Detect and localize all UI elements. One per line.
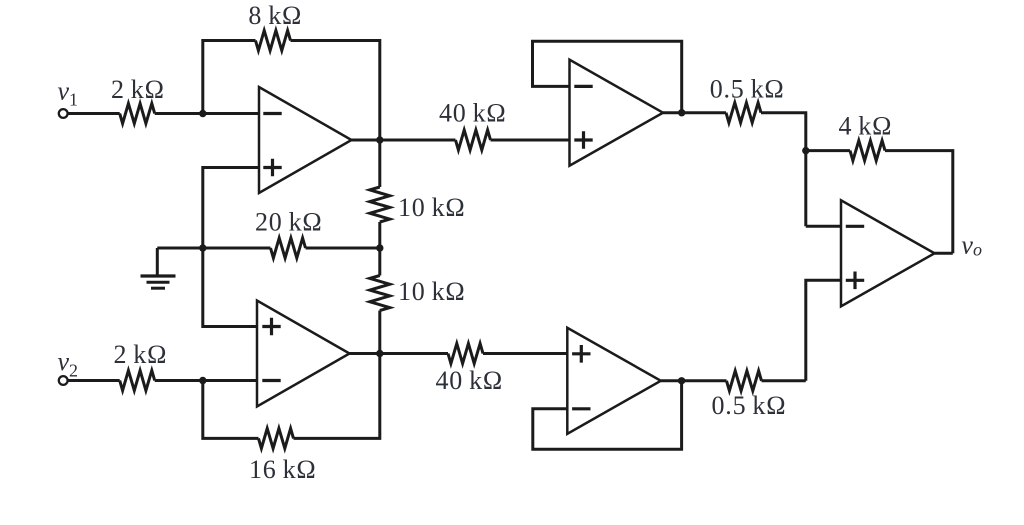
- junction node E: [199, 377, 206, 384]
- wire 40k to U4 + input: [483, 352, 567, 355]
- U5 non-inverting input +: [846, 272, 864, 290]
- U2 inverting input -: [262, 379, 280, 382]
- wire U5 - input stub: [806, 225, 841, 228]
- wire between 10k resistors: [378, 222, 381, 276]
- resistor 2k (top input): [120, 104, 155, 124]
- wire node B down to 10k: [378, 140, 381, 187]
- U4 inverting input -: [572, 407, 590, 410]
- resistor 40k upper: [456, 130, 491, 150]
- wire v2 to R 2k: [68, 379, 120, 382]
- junction node F: [802, 147, 809, 154]
- wire U4 output to 0.5k: [661, 379, 727, 382]
- resistor 8k feedback: [256, 31, 291, 51]
- wire 0.5k down to U5 - input: [761, 113, 806, 227]
- U4 non-inverting input +: [572, 345, 590, 363]
- wire 10k lower to node D: [378, 311, 381, 354]
- resistor 2k (bottom input): [120, 371, 155, 391]
- resistor 0.5k lower: [727, 371, 762, 391]
- wire R 2k to U2 inverting input, node E: [155, 379, 257, 382]
- op-amp U1: [259, 87, 352, 193]
- junction U4 output: [678, 377, 685, 384]
- U4 unity feedback loop: [533, 381, 682, 449]
- svg-text:40 kΩ: 40 kΩ: [439, 99, 507, 128]
- svg-text:0.5 kΩ: 0.5 kΩ: [712, 391, 787, 420]
- op-amp U2: [257, 301, 350, 407]
- ground stub: [156, 248, 159, 275]
- wire U5 + input down to lower 0.5k row: [806, 280, 841, 381]
- U5 inverting input -: [846, 225, 864, 228]
- wire ground to 20k: [157, 247, 270, 250]
- op-amp U4 buffer: [567, 328, 661, 434]
- svg-text:10 kΩ: 10 kΩ: [398, 193, 466, 222]
- svg-text:40 kΩ: 40 kΩ: [436, 366, 504, 395]
- svg-text:4 kΩ: 4 kΩ: [839, 112, 893, 141]
- resistor 40k lower: [448, 344, 483, 364]
- ground symbol: [141, 276, 176, 288]
- resistor 10k lower: [370, 276, 390, 311]
- resistor 4k feedback: [850, 141, 885, 161]
- junction node C between 10k resistors: [376, 244, 383, 251]
- svg-text:16 kΩ: 16 kΩ: [249, 455, 317, 484]
- wire U5 output vo: [935, 252, 953, 255]
- U3 non-inverting input +: [574, 131, 592, 149]
- junction U3 output: [678, 109, 685, 116]
- svg-text:20 kΩ: 20 kΩ: [255, 207, 323, 236]
- svg-text:0.5 kΩ: 0.5 kΩ: [710, 75, 785, 104]
- U2 non-inverting input +: [262, 318, 280, 336]
- svg-text:10 kΩ: 10 kΩ: [398, 277, 466, 306]
- resistor 10k upper: [370, 187, 390, 222]
- junction node D: [376, 350, 383, 357]
- U1 inverting input -: [263, 112, 281, 115]
- U3 unity feedback loop: [533, 41, 682, 113]
- wire 8k to U1 output node B: [291, 41, 380, 141]
- U1 non-inverting input +: [263, 159, 281, 177]
- wire U3 output to 0.5k: [663, 111, 726, 114]
- junction node B: [376, 136, 383, 143]
- wire node E down to 16k: [203, 381, 259, 439]
- wire U1 + input down to 20k row: [203, 168, 259, 249]
- wire 20k to node C: [306, 247, 380, 250]
- svg-text:2 kΩ: 2 kΩ: [111, 75, 165, 104]
- wire 0.5k to U5 + column: [762, 379, 806, 382]
- svg-text:2 kΩ: 2 kΩ: [114, 340, 168, 369]
- op-amp U3 buffer: [570, 60, 664, 166]
- wire node F to 4k: [806, 149, 850, 152]
- resistor 20k: [271, 238, 306, 258]
- wire node A up to 8k: [203, 41, 256, 114]
- svg-text:8 kΩ: 8 kΩ: [248, 1, 302, 30]
- wire 16k to U2 output node D: [294, 354, 380, 439]
- wire 40k to U3 + input: [491, 139, 570, 142]
- wire R 2k to U1 inverting input, node A: [155, 112, 259, 115]
- terminal v1: [59, 109, 68, 118]
- resistor 16k feedback: [259, 428, 294, 448]
- wire v1 to R 2k: [68, 112, 120, 115]
- resistor 0.5k upper: [726, 103, 761, 123]
- terminal v2: [59, 376, 68, 385]
- U3 inverting input -: [574, 85, 592, 88]
- wire 4k to U5 output: [885, 151, 953, 254]
- wire U1 output to 40k: [352, 139, 456, 142]
- junction node A: [199, 110, 206, 117]
- wire U2 output to 40k: [350, 352, 449, 355]
- junction 20k row / U1+ / U2+: [199, 244, 206, 251]
- wire U2 + input up to 20k row: [203, 248, 257, 327]
- op-amp U5 output stage: [841, 200, 935, 306]
